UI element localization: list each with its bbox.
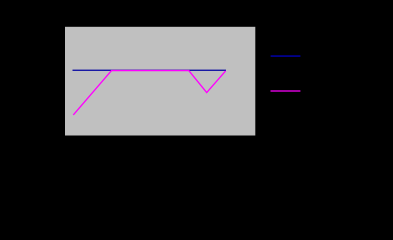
blue reference line <box>73 69 227 71</box>
plot area <box>65 27 255 136</box>
magenta trace <box>73 71 225 115</box>
legend blue line <box>271 55 301 57</box>
legend magenta line <box>271 90 301 92</box>
